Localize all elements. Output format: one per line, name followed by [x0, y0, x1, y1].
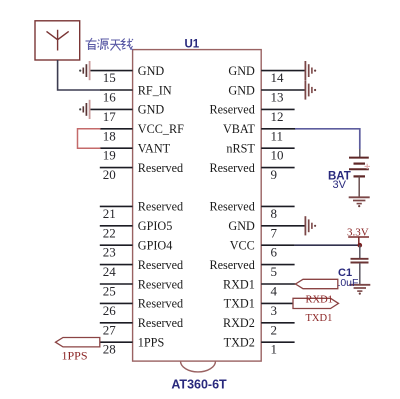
- label RXD1: [306, 294, 333, 305]
- svg-text:U1: U1: [185, 39, 200, 51]
- pin 26 name Reserved: [138, 297, 183, 311]
- svg-text:Reserved: Reserved: [209, 103, 254, 117]
- svg-text:GND: GND: [228, 219, 255, 233]
- ground at pin 15: [79, 61, 90, 80]
- svg-text:27: 27: [103, 322, 117, 337]
- label 1PPS: [62, 349, 88, 363]
- svg-text:1: 1: [271, 342, 278, 357]
- svg-text:GND: GND: [228, 83, 255, 97]
- pin 10 name nRST: [226, 142, 255, 156]
- svg-text:26: 26: [103, 303, 117, 318]
- pin 19 number: [103, 148, 116, 163]
- svg-text:GND: GND: [138, 103, 165, 117]
- wire junction to capacitor C1: [359, 245, 361, 258]
- svg-text:2: 2: [271, 322, 278, 337]
- svg-text:Reserved: Reserved: [138, 297, 183, 311]
- wire antenna to RF_IN pin 16: [58, 60, 101, 90]
- label 3V: [333, 179, 347, 191]
- pin 10 wire: [261, 147, 294, 149]
- svg-text:TXD1: TXD1: [306, 313, 333, 324]
- pin 7 number: [271, 225, 278, 240]
- svg-text:AT360-6T: AT360-6T: [171, 378, 227, 392]
- pin 6 number: [271, 245, 278, 260]
- svg-text:4: 4: [271, 284, 278, 299]
- svg-text:GPIO4: GPIO4: [138, 239, 173, 253]
- svg-text:22: 22: [103, 225, 116, 240]
- pin 3 number: [271, 303, 278, 318]
- pin 2 number: [271, 322, 278, 337]
- pin 25 name Reserved: [138, 277, 183, 291]
- pin 14 number: [271, 70, 285, 85]
- pin 13 name GND: [228, 83, 255, 97]
- pin 19 name VANT: [138, 142, 171, 156]
- pin 23 number: [103, 245, 116, 260]
- svg-text:19: 19: [103, 148, 116, 163]
- pin 17 name GND: [138, 103, 165, 117]
- antenna E1 box: [35, 21, 80, 60]
- pin 25 wire: [100, 283, 133, 285]
- pin 6 name VCC: [230, 239, 255, 253]
- svg-text:18: 18: [103, 128, 116, 143]
- pin 5 number: [271, 264, 278, 279]
- pin 5 wire: [261, 264, 294, 266]
- pin 11 number: [271, 128, 284, 143]
- pin 8 number: [271, 206, 278, 221]
- svg-text:7: 7: [271, 225, 278, 240]
- svg-text:1PPS: 1PPS: [138, 336, 165, 350]
- svg-text:TXD1: TXD1: [224, 297, 255, 311]
- pin 28 number: [103, 342, 116, 357]
- svg-text:RXD1: RXD1: [306, 294, 333, 305]
- svg-text:25: 25: [103, 284, 116, 299]
- pin 4 name RXD1: [223, 277, 255, 291]
- pin 13 number: [271, 90, 284, 105]
- pin 13 wire: [261, 89, 305, 91]
- pin 7 name GND: [228, 219, 255, 233]
- pin 17 number: [103, 109, 117, 124]
- battery plus mark: [365, 164, 371, 169]
- svg-text:VBAT: VBAT: [223, 122, 255, 136]
- pin 14 name GND: [228, 64, 255, 78]
- IC designator U1: [185, 39, 200, 51]
- wire VBAT pin 11 to battery: [295, 129, 360, 149]
- IC part number AT360-6T: [171, 378, 227, 392]
- svg-text:24: 24: [103, 264, 117, 279]
- pin 8 wire: [261, 205, 294, 207]
- pin 26 number: [103, 303, 117, 318]
- wire red bracket pin 18 to pin 19: [78, 129, 101, 148]
- pin 21 name Reserved: [138, 200, 183, 214]
- pin 28 name 1PPS: [138, 336, 165, 350]
- pin 12 name Reserved: [209, 103, 254, 117]
- svg-text:14: 14: [271, 70, 285, 85]
- svg-text:13: 13: [271, 90, 284, 105]
- port RXD1 (left-pointing) at pin 4: [296, 279, 338, 288]
- pin 20 number: [103, 167, 116, 182]
- pin 27 name Reserved: [138, 316, 183, 330]
- svg-text:Reserved: Reserved: [138, 258, 183, 272]
- pin 16 number: [103, 90, 117, 105]
- svg-text:17: 17: [103, 109, 117, 124]
- svg-text:RXD2: RXD2: [223, 316, 255, 330]
- svg-text:TXD2: TXD2: [224, 336, 255, 350]
- pin 16 wire: [100, 89, 133, 91]
- label 10uF: [335, 277, 359, 289]
- capacitor C1: [351, 259, 369, 263]
- svg-text:GND: GND: [228, 64, 255, 78]
- pin 15 number: [103, 70, 116, 85]
- pin 11 wire: [261, 128, 295, 130]
- svg-text:12: 12: [271, 109, 284, 124]
- pin 18 number: [103, 128, 116, 143]
- pin 10 number: [271, 148, 284, 163]
- pin 22 name GPIO5: [138, 219, 173, 233]
- label 3.3V: [347, 226, 369, 238]
- pin 11 name VBAT: [223, 122, 255, 136]
- pin 27 wire: [100, 322, 133, 324]
- svg-text:21: 21: [103, 206, 116, 221]
- pin 5 name Reserved: [209, 258, 254, 272]
- pin 8 name Reserved: [209, 200, 254, 214]
- pin 2 name RXD2: [223, 316, 255, 330]
- svg-text:Reserved: Reserved: [138, 200, 183, 214]
- svg-text:RXD1: RXD1: [223, 277, 255, 291]
- junction node at 3.3V/VCC/C1: [358, 243, 363, 248]
- pin 16 name RF_IN: [138, 83, 172, 97]
- pin 15 wire: [90, 70, 133, 72]
- svg-text:5: 5: [271, 264, 278, 279]
- svg-text:6: 6: [271, 245, 278, 260]
- svg-text:3V: 3V: [333, 179, 347, 191]
- label C1: [338, 267, 352, 279]
- op-amp/IC body U1 rectangle: [133, 50, 262, 362]
- svg-text:Reserved: Reserved: [138, 316, 183, 330]
- pin 2 wire: [261, 322, 294, 324]
- pin 17 wire: [90, 108, 133, 110]
- pin 24 wire: [100, 264, 133, 266]
- pin 18 name VCC_RF: [138, 122, 184, 136]
- pin 9 number: [271, 167, 278, 182]
- pin 24 name Reserved: [138, 258, 183, 272]
- IC U1 bottom notch arc: [181, 361, 216, 372]
- pin 3 name TXD1: [224, 297, 255, 311]
- pin 28 wire: [100, 341, 133, 343]
- svg-text:Reserved: Reserved: [209, 200, 254, 214]
- pin 18 wire: [100, 128, 133, 130]
- wire battery to ground: [358, 176, 360, 197]
- pin 25 number: [103, 284, 116, 299]
- svg-text:20: 20: [103, 167, 116, 182]
- ground below battery: [349, 197, 370, 207]
- pin 21 number: [103, 206, 116, 221]
- svg-text:3.3V: 3.3V: [347, 226, 369, 238]
- svg-text:28: 28: [103, 342, 116, 357]
- pin 24 number: [103, 264, 117, 279]
- label BAT: [328, 170, 351, 182]
- pin 9 wire: [261, 167, 294, 169]
- ground at pin 7: [305, 216, 316, 235]
- pin 7 wire: [261, 225, 305, 227]
- svg-text:GPIO5: GPIO5: [138, 219, 173, 233]
- wire capacitor C1 to ground: [359, 263, 361, 285]
- pin 3 wire: [261, 302, 293, 304]
- svg-text:15: 15: [103, 70, 116, 85]
- svg-text:10: 10: [271, 148, 284, 163]
- svg-text:23: 23: [103, 245, 116, 260]
- pin 12 number: [271, 109, 284, 124]
- pin 15 name GND: [138, 64, 165, 78]
- pin 4 wire: [261, 283, 295, 285]
- ground at pin 17: [79, 100, 90, 119]
- svg-text:GND: GND: [138, 64, 165, 78]
- pin 6 wire: [261, 244, 294, 246]
- antenna E1 symbol: [47, 30, 69, 51]
- svg-text:VCC: VCC: [230, 239, 255, 253]
- pin 9 name Reserved: [209, 161, 254, 175]
- pin 23 name GPIO4: [138, 239, 173, 253]
- svg-text:Reserved: Reserved: [209, 161, 254, 175]
- pin 4 number: [271, 284, 278, 299]
- pin 14 wire: [261, 70, 305, 72]
- pin 12 wire: [261, 108, 294, 110]
- pin 26 wire: [100, 302, 133, 304]
- pin 20 wire: [100, 167, 133, 169]
- svg-text:1PPS: 1PPS: [62, 349, 88, 363]
- svg-text:Reserved: Reserved: [138, 161, 183, 175]
- port 1PPS (left-pointing) at pin 28: [56, 338, 100, 347]
- svg-text:nRST: nRST: [226, 142, 255, 156]
- svg-text:RF_IN: RF_IN: [138, 83, 172, 97]
- svg-text:16: 16: [103, 90, 117, 105]
- ground at pin 13: [305, 80, 316, 99]
- pin 1 wire: [261, 341, 294, 343]
- battery BAT: [349, 158, 369, 177]
- label active antenna (Chinese): [86, 38, 134, 51]
- svg-text:Reserved: Reserved: [138, 277, 183, 291]
- svg-text:11: 11: [271, 128, 284, 143]
- pin 23 wire: [100, 244, 133, 246]
- ground at pin 14: [305, 61, 316, 80]
- pin 19 wire: [100, 147, 133, 149]
- svg-text:VANT: VANT: [138, 142, 171, 156]
- pin 22 number: [103, 225, 116, 240]
- svg-text:8: 8: [271, 206, 278, 221]
- svg-text:9: 9: [271, 167, 278, 182]
- wire battery top stem: [359, 149, 361, 157]
- power rail 3.3V bar and stem: [348, 237, 369, 245]
- svg-text:VCC_RF: VCC_RF: [138, 122, 184, 136]
- pin 27 number: [103, 322, 117, 337]
- ground below capacitor C1: [349, 285, 370, 295]
- pin 20 name Reserved: [138, 161, 183, 175]
- pin 1 number: [271, 342, 278, 357]
- pin 1 name TXD2: [224, 336, 255, 350]
- label TXD1: [306, 313, 333, 324]
- pin 22 wire: [100, 225, 133, 227]
- svg-text:Reserved: Reserved: [209, 258, 254, 272]
- port TXD1 (right-pointing) at pin 3: [293, 298, 339, 308]
- wire VCC pin 6 to junction: [295, 244, 361, 246]
- pin 21 wire: [100, 205, 133, 207]
- svg-text:3: 3: [271, 303, 278, 318]
